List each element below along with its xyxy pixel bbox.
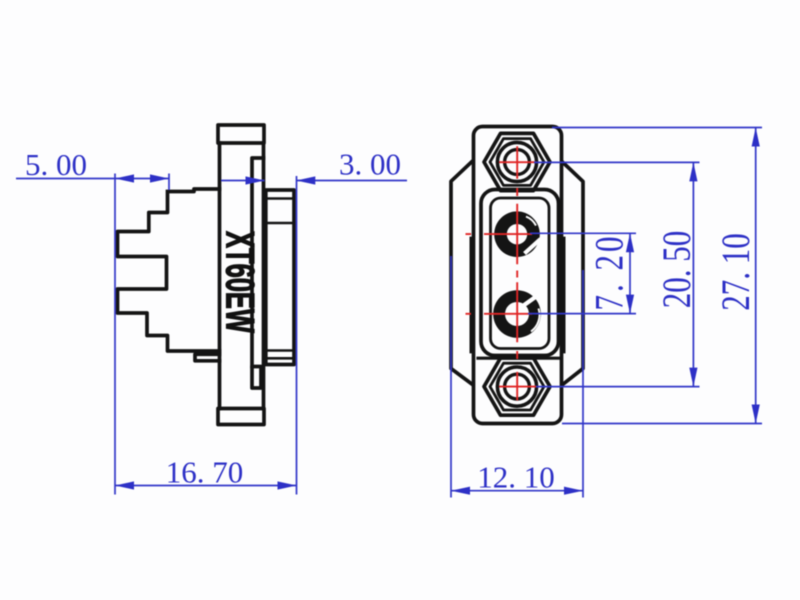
front view side plate edge right	[563, 238, 566, 352]
dim 5.00 line	[16, 178, 169, 180]
bottom hex nut outer	[484, 358, 550, 415]
arrowheads 7.20	[626, 233, 634, 252]
socket 2 horizontal centerline	[466, 313, 533, 315]
arrowheads 27.10	[752, 128, 760, 147]
arrowheads 3.00 (outside)	[246, 176, 265, 184]
arrowheads 20.50	[689, 162, 697, 181]
svg-text:27. 10: 27. 10	[713, 233, 758, 310]
bottom screw hole outer circle	[497, 367, 536, 406]
svg-text:XT60EW: XT60EW	[217, 231, 261, 333]
vertical centerline	[516, 146, 518, 400]
dim 20.50 line	[692, 162, 694, 386]
top hex nut outer	[484, 133, 550, 190]
arrowheads 5.00	[115, 174, 134, 182]
arrowheads 12.10	[451, 487, 470, 495]
svg-text:3. 00: 3. 00	[339, 147, 401, 182]
svg-text:7. 20: 7. 20	[587, 237, 632, 311]
dim 3.00 extension right (shared 16.70)	[296, 176, 298, 495]
front view main body	[474, 127, 562, 424]
top screw hole outer circle	[497, 142, 536, 181]
flange bottom cap	[218, 409, 264, 425]
flange inner bottom box	[252, 367, 261, 389]
dim 16.70 line	[115, 485, 297, 487]
dim 27.10 line	[755, 128, 757, 424]
front view left wing	[451, 162, 472, 384]
top hex nut inner	[490, 139, 544, 186]
flange inner plate line	[252, 158, 264, 367]
middle housing inner	[491, 198, 550, 349]
svg-text:12. 10: 12. 10	[477, 460, 555, 495]
socket 2 highlight slash	[524, 296, 538, 306]
svg-text:5. 00: 5. 00	[25, 147, 87, 182]
dim 5.00 extension right	[168, 174, 170, 191]
side view right plate inner lines	[266, 199, 294, 359]
bottom hex horizontal centerline	[499, 386, 536, 388]
front view side plate edge left	[469, 238, 472, 352]
socket 1 annulus	[494, 211, 540, 257]
svg-text:16. 70: 16. 70	[166, 455, 244, 490]
top screw hole inner circle	[505, 150, 530, 175]
bottom screw hole inner circle	[505, 374, 530, 399]
socket 2 annulus	[493, 290, 541, 338]
side view bottom tab	[195, 354, 220, 361]
svg-text:20. 50: 20. 50	[654, 231, 699, 308]
dim 12.10 extension right	[582, 270, 584, 498]
dim 12.10 extension left	[450, 256, 452, 498]
socket 1 horizontal centerline	[466, 233, 533, 235]
bottom hex nut inner	[490, 363, 544, 410]
dim 7.20 extensions	[528, 233, 636, 313]
side view body stepped profile	[118, 189, 220, 351]
dim 27.10 extensions	[552, 128, 762, 424]
dim 5.00 extension left (shared 16.70)	[114, 174, 116, 495]
dim 3.00 lines	[221, 180, 407, 182]
middle housing outer	[481, 190, 559, 356]
front view right wing	[564, 163, 584, 384]
flange side edges	[220, 143, 264, 409]
arrowheads 16.70	[115, 481, 134, 489]
dim 20.50 extensions	[534, 162, 700, 386]
side view right plate	[266, 190, 294, 365]
top hex horizontal centerline	[499, 161, 536, 163]
housing bottom separation line	[478, 357, 559, 360]
socket 2 white ring gap arc	[531, 309, 540, 332]
socket 1 white ring gap arc	[526, 217, 536, 226]
dim 7.20 line	[629, 233, 631, 313]
dim 12.10 line	[451, 490, 583, 492]
flange top cap	[218, 125, 264, 143]
socket 1 highlight slash	[525, 239, 541, 254]
